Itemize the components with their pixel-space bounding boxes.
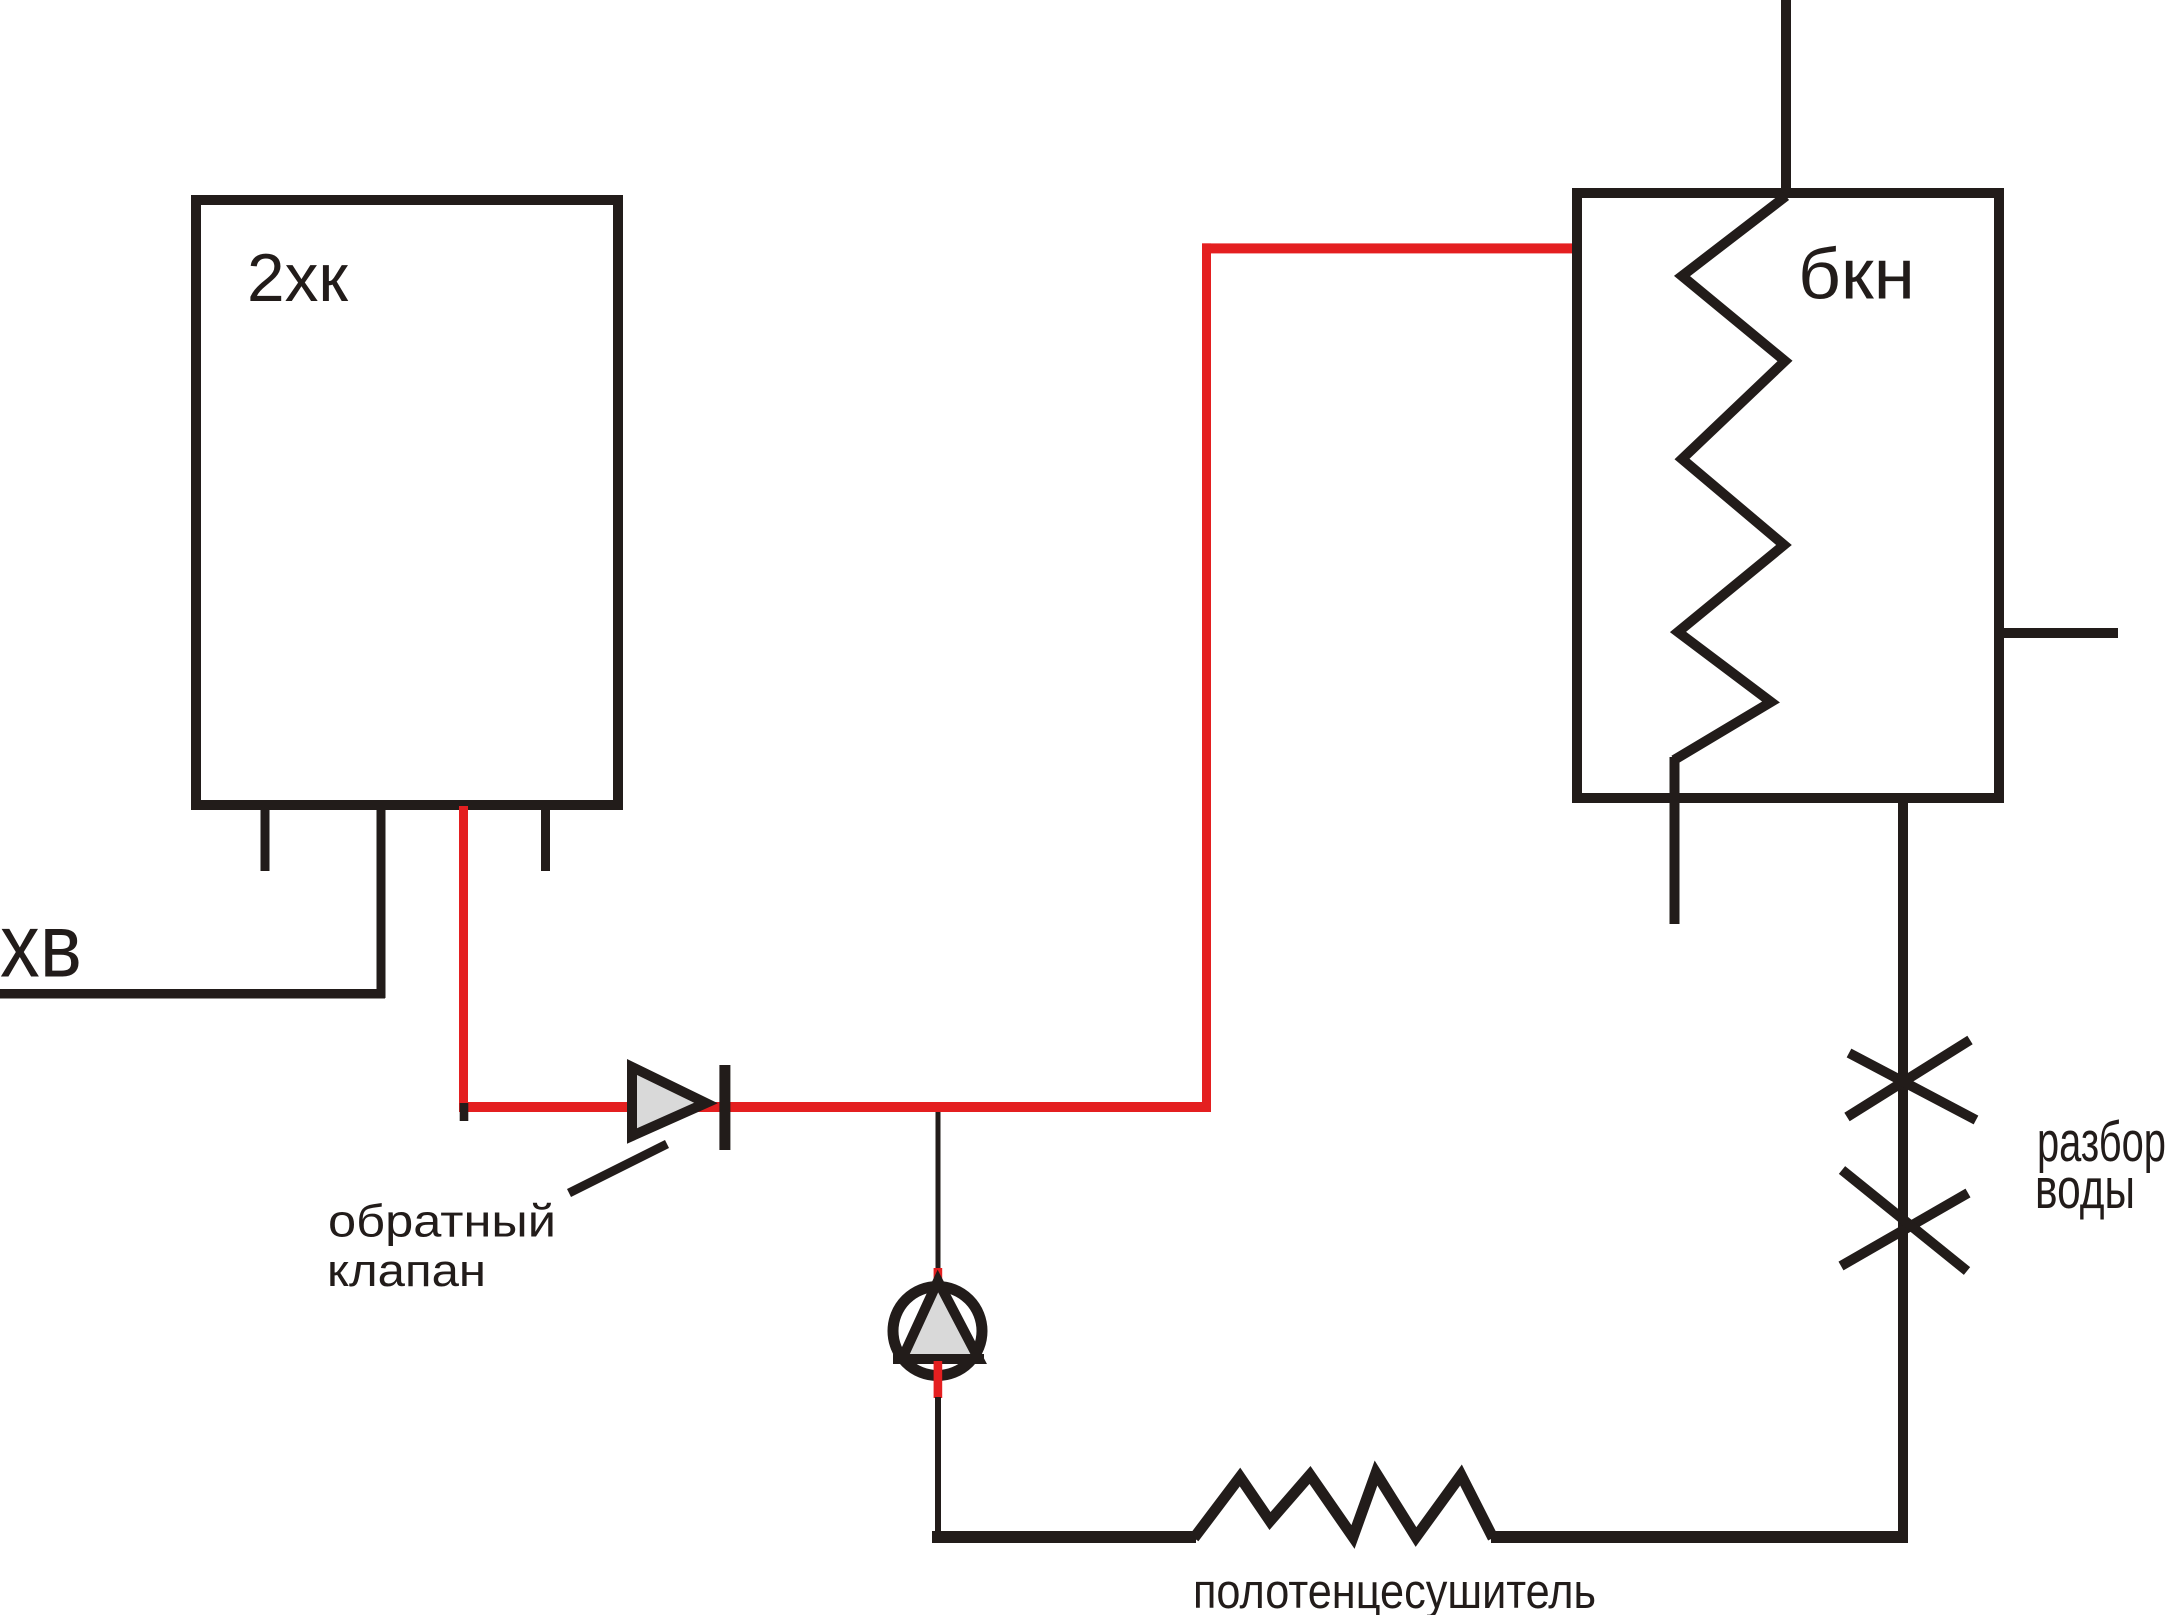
svg-text:полотенцесушитель: полотенцесушитель bbox=[1193, 1565, 1596, 1615]
svg-text:2хк: 2хк bbox=[247, 240, 349, 316]
svg-text:клапан: клапан bbox=[327, 1245, 486, 1296]
svg-text:воды: воды bbox=[2035, 1157, 2135, 1221]
svg-text:обратный: обратный bbox=[328, 1196, 556, 1247]
svg-text:бкн: бкн bbox=[1798, 236, 1915, 315]
svg-text:хв: хв bbox=[0, 897, 82, 997]
